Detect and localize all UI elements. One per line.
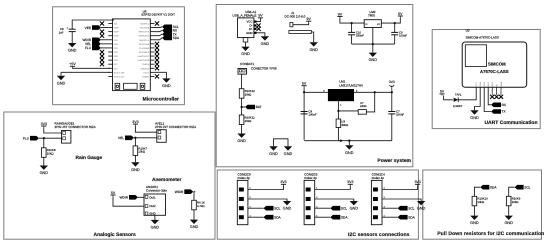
net flag SCL	[162, 25, 179, 30]
svg-text:GND: GND	[237, 139, 246, 143]
svg-text:Connector-3pin: Connector-3pin	[146, 189, 167, 193]
svg-text:VEL: VEL	[118, 136, 124, 140]
connector AVEL1 2PIN JST CONNECTOR RIZA	[155, 122, 197, 143]
svg-text:SCL: SCL	[274, 206, 280, 210]
svg-text:UART Communication: UART Communication	[484, 120, 537, 126]
capacitor C10	[348, 30, 364, 37]
section box: Pull Down resistors for I2C communication	[423, 170, 542, 239]
no-connect pin row 6 right	[155, 42, 159, 46]
svg-text:GND: GND	[417, 207, 426, 211]
svg-text:GND: GND	[40, 171, 49, 175]
svg-text:RXD2/UA0: RXD2/UA0	[139, 43, 150, 46]
ground left of IC	[57, 76, 66, 86]
ground UART	[470, 110, 479, 120]
wire to LM317 input	[304, 91, 328, 93]
svg-text:SCL/S25b: SCL/S25b	[140, 27, 150, 30]
svg-text:GND: GND	[479, 81, 482, 86]
IC pin stubs right	[150, 24, 154, 77]
svg-text:GPIO17/TX: GPIO17/TX	[138, 31, 149, 34]
wire CONI2C4 pin4 to SDA	[382, 216, 398, 218]
svg-text:D40/Rx: D40/Rx	[142, 75, 150, 78]
svg-text:S&L/SCLK: S&L/SCLK	[139, 39, 150, 42]
ground rain gauge	[40, 166, 49, 176]
resistor R10K9 10kΩ	[506, 196, 520, 206]
svg-text:RXD: RXD	[487, 81, 490, 86]
wire shield to ground	[245, 42, 247, 47]
svg-text:SDA: SDA	[173, 36, 180, 40]
net flag VEL	[118, 136, 134, 141]
net flag VEE	[85, 25, 101, 30]
connector ANIDIR1 Connector-3pin	[144, 185, 167, 216]
svg-text:4.7kΩ: 4.7kΩ	[197, 204, 205, 208]
svg-text:molex 4p: molex 4p	[304, 176, 317, 180]
net flag FLU	[23, 136, 39, 141]
svg-text:5V: 5V	[398, 12, 403, 16]
svg-text:DC-005 2.0-6.0: DC-005 2.0-6.0	[285, 14, 306, 18]
svg-text:TxD0/SCL: TxD0/SCL	[140, 23, 150, 26]
net flag BAT	[245, 105, 262, 110]
ground rail LM317	[304, 140, 392, 142]
resistor R4 1K 4.7kΩ	[192, 200, 205, 210]
wire CONI2C6 pin4 to SDA	[248, 216, 264, 218]
svg-text:GND: GND	[246, 31, 252, 35]
svg-text:3V3: 3V3	[280, 180, 286, 184]
wire down to ground	[60, 72, 62, 75]
no-connect pin row 9 right	[155, 54, 159, 58]
ground LM317	[345, 145, 354, 155]
resistor R10K11 10kΩ	[239, 115, 255, 125]
wire C10 to rail	[351, 35, 353, 44]
svg-text:SCL: SCL	[341, 206, 347, 210]
wire CONI2C6 pin2 to ground	[248, 199, 287, 201]
connector CONI2C5 molex 4p	[304, 173, 318, 225]
no-connect pin row 11 right	[155, 62, 159, 66]
ground CONI2C6	[283, 201, 292, 211]
svg-text:I2C sensors connections: I2C sensors connections	[348, 232, 410, 238]
module U5 SIMCOM A7670C-LASS	[462, 28, 527, 87]
net flag FLU	[85, 46, 101, 51]
resistor U3 390Ω	[336, 119, 348, 128]
IC pin name texts (right column)	[138, 23, 150, 79]
svg-text:10kΩ: 10kΩ	[245, 119, 252, 123]
net flag SCL (CONI2C6)	[264, 206, 281, 211]
section box: Microcontroller	[53, 7, 185, 105]
net flag SDA (CONI2C4)	[398, 215, 416, 220]
svg-text:USB_A_FEMALE: USB_A_FEMALE	[233, 14, 257, 18]
svg-text:10kΩ: 10kΩ	[138, 150, 145, 154]
svg-text:SDA: SDA	[274, 215, 281, 219]
junction	[374, 91, 376, 93]
svg-text:Rain Gauge: Rain Gauge	[76, 155, 103, 161]
section box: Analogic Sensors	[4, 112, 215, 239]
no-connect pin row 8 left	[100, 50, 104, 54]
wire FLU to pin 2	[39, 137, 62, 139]
svg-text:D4/Tx: D4/Tx	[144, 71, 151, 74]
ground wind vane	[151, 220, 160, 230]
svg-text:Power system: Power system	[377, 158, 411, 164]
resistor R10K8 10kΩ	[42, 148, 56, 158]
svg-text:GND: GND	[57, 81, 66, 85]
IC pin name texts (left column)	[114, 23, 125, 79]
svg-text:10kΩ: 10kΩ	[477, 200, 484, 204]
svg-text:GND/A: GND/A	[143, 63, 150, 66]
power flag 3V3 (CONI2C6)	[280, 180, 286, 186]
no-connect module pin PWR	[499, 95, 503, 99]
svg-text:WDIR: WDIR	[120, 196, 129, 200]
svg-text:GND: GND	[241, 52, 250, 56]
svg-text:CONECTOR YP06: CONECTOR YP06	[251, 66, 277, 70]
wire module GND pin down	[475, 87, 481, 110]
svg-text:GND: GND	[504, 221, 513, 225]
svg-text:VI: VI	[365, 23, 367, 26]
net flag SCL (pull down)	[515, 185, 531, 190]
net flag SCL (CONI2C5)	[330, 206, 347, 211]
no-connect pin row 3 left	[100, 30, 104, 34]
wire GND pin down	[154, 215, 156, 220]
junction	[43, 137, 45, 139]
svg-text:100nF: 100nF	[399, 34, 407, 38]
svg-text:Pull Down resistors for I2C co: Pull Down resistors for I2C communicatio…	[437, 231, 544, 237]
wire C8 top to 3V3 pin	[72, 20, 114, 29]
wire C8 to ground	[71, 32, 73, 43]
svg-text:BAT: BAT	[256, 105, 262, 109]
connector RAINGAUGE1 2PIN JST CONNECTOR RIZA	[55, 122, 97, 144]
power flag 9V (jack)	[306, 17, 311, 23]
svg-text:SIMCOM: SIMCOM	[488, 61, 506, 66]
net flag SDA (pull down)	[480, 185, 497, 190]
wire C9 to rail	[394, 35, 396, 44]
svg-text:GND: GND	[470, 221, 479, 225]
junction	[391, 91, 393, 93]
wire R10K7 to ground	[134, 155, 136, 162]
svg-text:CLK/SUB0: CLK/SUB0	[139, 47, 150, 50]
svg-text:SCA/T. MIS: SCA/T. MIS	[114, 71, 125, 74]
svg-text:SAMS/SDA: SAMS/SDA	[138, 35, 149, 38]
wire 7805 output to 5V	[381, 18, 400, 24]
svg-text:10kΩ: 10kΩ	[245, 93, 252, 97]
wire to C10	[351, 23, 353, 32]
svg-text:SDA: SDA	[490, 185, 497, 189]
svg-text:WDIR: WDIR	[175, 190, 184, 194]
wire R10K10 to ground	[473, 206, 475, 216]
svg-text:GND: GND	[162, 84, 171, 88]
svg-text:9V: 9V	[307, 17, 312, 21]
svg-text:10kΩ: 10kΩ	[47, 152, 54, 156]
connector J1 DC-005 2.0-6.0 barrel jack	[285, 11, 312, 33]
no-connect pin row 9 left	[100, 54, 104, 58]
wire +5V to pin	[73, 67, 110, 69]
svg-text:EN/P: EN/P	[114, 35, 119, 38]
resistor R10K12 10kΩ	[239, 89, 255, 99]
wire junction to BAT tag	[242, 106, 245, 108]
svg-text:390Ω: 390Ω	[341, 123, 348, 127]
wire CONI2C4 pin2 to ground	[382, 199, 421, 201]
connector CONI2C6 molex 4p	[237, 173, 251, 225]
svg-text:GND: GND	[350, 207, 359, 211]
wire 7805 gnd pin down	[372, 28, 374, 45]
resistor R10K7 10kΩ	[133, 146, 147, 156]
svg-text:Out1: Out1	[149, 195, 156, 199]
wire diode to module VCC pin	[458, 87, 476, 100]
wire 3V3 to pin 1	[135, 126, 156, 133]
no-connect pin row 11 left	[100, 62, 104, 66]
no-connect module pin DTR	[490, 95, 494, 99]
no-connect pin row 14 right	[155, 74, 159, 78]
wire RXD to RX tag	[488, 87, 491, 105]
resistor R10K10 10kΩ	[472, 196, 488, 206]
net flag RX	[491, 103, 507, 108]
power flag 5V (LM317 input)	[302, 82, 307, 88]
wire to C9	[394, 23, 396, 32]
svg-text:Out2: Out2	[149, 204, 156, 208]
power flag 3V3 (CONI2C5)	[347, 180, 353, 186]
power flag 5V (USB VCC)	[258, 14, 263, 20]
ground USB below	[241, 47, 250, 57]
svg-text:DTR: DTR	[491, 82, 494, 87]
ground (pair right)	[284, 146, 293, 156]
wire 5V to Out2	[113, 197, 144, 207]
wire LM317 adj down	[337, 101, 339, 119]
svg-text:PWR: PWR	[500, 81, 503, 86]
stem to ground	[372, 44, 374, 53]
net flag SCL (CONI2C4)	[398, 206, 415, 211]
svg-text:SIMCOM-A7670C-LASS: SIMCOM-A7670C-LASS	[466, 36, 499, 40]
wire USB GND pin	[257, 33, 265, 36]
svg-text:molex 4p: molex 4p	[372, 176, 385, 180]
power flag +5V (microcontroller)	[69, 62, 76, 68]
svg-text:GND: GND	[68, 49, 77, 53]
ground R4	[190, 220, 199, 230]
svg-text:molex 4p: molex 4p	[238, 176, 251, 180]
resistor U7 240Ω (horizontal)	[358, 102, 366, 114]
power flag 9V (7805 input)	[337, 12, 342, 18]
connector CONI2C4 molex 4p	[371, 173, 385, 225]
wire output to C7	[391, 92, 393, 111]
svg-text:TAV1: TAV1	[455, 93, 462, 96]
regulator U2 7805	[364, 10, 381, 28]
svg-text:3V3: 3V3	[389, 80, 395, 84]
no-connect USB D-	[257, 23, 261, 27]
wire R10K8 to ground	[43, 157, 45, 165]
svg-text:3V3: 3V3	[347, 180, 353, 184]
wire 390Ω to rail	[337, 128, 339, 141]
svg-text:3V3: 3V3	[414, 180, 420, 184]
section box: I2C sensors connections	[217, 170, 418, 239]
svg-text:GND: GND	[369, 58, 378, 62]
connector USB-A1 USB_A_FEMALE	[233, 10, 257, 38]
module pin labels (rotated)	[475, 81, 503, 86]
capacitor C8 (LM317 input)	[301, 109, 317, 116]
svg-text:USB/D22: USB/D22	[140, 67, 150, 70]
op-amp U8 ESP32 DEVKIT V1 DOIT (microcontroller IC body)	[113, 9, 176, 90]
ground 7805	[369, 53, 378, 63]
svg-text:GND: GND	[283, 207, 292, 211]
wire pin to left ground	[61, 71, 110, 73]
svg-text:5V: 5V	[302, 82, 307, 86]
svg-text:GND: GND	[151, 226, 160, 230]
wire CONI2C6 pin1 to 3V3	[248, 186, 284, 190]
svg-text:SCL: SCL	[524, 185, 530, 189]
svg-text:GND: GND	[470, 116, 479, 120]
section box: UART Communication	[432, 30, 540, 129]
wire 9V to 7805 input	[340, 18, 364, 23]
IC pin stubs left	[108, 24, 112, 77]
wire CONI2C5 pin2 to ground	[315, 199, 354, 201]
svg-text:100nF: 100nF	[308, 113, 316, 117]
ground CONI2C5	[350, 201, 359, 211]
svg-text:VO: VO	[377, 23, 380, 26]
wire TXD to TX tag	[484, 87, 491, 111]
svg-text:2PIN JST CONNECTOR RIZA: 2PIN JST CONNECTOR RIZA	[155, 125, 197, 129]
wire LM317 output rail	[354, 91, 392, 93]
power flag 5V (UART)	[439, 90, 444, 96]
junction	[340, 140, 342, 142]
wire USB VCC to 5V flag	[257, 20, 261, 22]
svg-text:GND: GND	[149, 212, 155, 216]
ground CONI2C4	[417, 201, 426, 211]
svg-text:VEE: VEE	[85, 26, 91, 30]
svg-text:7805: 7805	[368, 13, 375, 17]
svg-text:GND: GND	[131, 168, 140, 172]
net flag SDA (CONI2C6)	[264, 215, 282, 220]
wire WDIR to R4	[194, 192, 195, 201]
svg-text:5V: 5V	[111, 191, 116, 195]
ground USB right	[261, 36, 270, 46]
capacitor C7	[388, 109, 404, 116]
wire junction down	[43, 138, 45, 148]
junction	[303, 91, 305, 93]
wire left tags to pins	[101, 28, 108, 48]
svg-text:EN/P: EN/P	[114, 31, 119, 34]
svg-text:330nF: 330nF	[356, 34, 364, 38]
stem to ground	[348, 141, 350, 146]
junction	[348, 140, 350, 142]
net flag WDIR (pull down)	[175, 189, 194, 194]
junction	[394, 22, 396, 24]
svg-text:FLU: FLU	[23, 136, 30, 140]
wire R4 to ground	[193, 210, 195, 220]
section box: Power system	[216, 5, 413, 167]
svg-text:SCL: SCL	[408, 206, 414, 210]
ground R10K10	[470, 216, 479, 226]
net flag WDIR	[83, 37, 102, 42]
svg-text:VCC: VCC	[475, 81, 478, 86]
ground rail 7805	[352, 43, 395, 45]
USB shield pin	[243, 38, 248, 42]
svg-text:EN/P: EN/P	[114, 27, 119, 30]
power flag 3V3 (anemometer)	[132, 120, 138, 126]
capacitor C9	[391, 30, 407, 37]
wire CONI2C4 pin1 to 3V3	[382, 186, 418, 190]
svg-text:5V: 5V	[440, 90, 445, 94]
net flag WDIR (wind vane)	[120, 195, 139, 200]
wire R10K9 to ground	[508, 206, 510, 216]
wire 5V down to rail via C8	[303, 87, 305, 140]
wire adj to 240Ω	[338, 110, 358, 112]
svg-text:+5V: +5V	[69, 62, 76, 66]
svg-text:3V3: 3V3	[41, 122, 47, 126]
diode TAV1 1N4007	[453, 93, 463, 108]
no-connect module pin RI	[495, 95, 499, 99]
wire output to 240Ω feedback	[366, 92, 374, 112]
svg-text:9V: 9V	[338, 12, 343, 16]
wire 5V to diode	[444, 96, 453, 100]
ground below C8	[68, 43, 77, 53]
svg-text:SDA: SDA	[341, 215, 348, 219]
wire CONI2C5 pin3 to SCL	[315, 207, 331, 209]
no-connect pin row 10 left	[100, 58, 104, 62]
power flag 3V3 (LM317 output)	[389, 80, 395, 93]
svg-text:UARTD/R17: UARTD/R17	[138, 55, 150, 58]
svg-text:Microcontroller: Microcontroller	[143, 97, 179, 103]
svg-text:GND: GND	[269, 152, 278, 156]
junction	[372, 43, 374, 45]
net flag VEL	[85, 42, 101, 47]
wire CONI2C6 pin3 to SCL	[248, 207, 264, 209]
wire CONI2C5 pin1 to 3V3	[315, 186, 351, 190]
svg-text:Analogic Sensors: Analogic Sensors	[94, 232, 136, 238]
junction	[337, 110, 339, 112]
no-connect pin row 10 right	[155, 58, 159, 62]
svg-text:ESP32 DEVKIT V1 DOIT: ESP32 DEVKIT V1 DOIT	[142, 13, 176, 17]
svg-text:10kΩ: 10kΩ	[512, 200, 519, 204]
net flag SDA	[162, 36, 180, 41]
capacitor C8 (microcontroller decoupling)	[59, 26, 76, 34]
ground (pair left)	[269, 146, 278, 156]
power flag 5V (7805 output)	[398, 12, 403, 18]
svg-text:U5: U5	[466, 28, 470, 32]
wire CONI2C5 pin4 to SDA	[315, 216, 331, 218]
no-connect pin row 1 left	[100, 21, 104, 25]
power flag 3V3 (CONI2C4)	[414, 180, 420, 186]
wire C7 to rail	[391, 114, 393, 141]
ground right of IC	[162, 78, 171, 88]
no-connect pin row 7 right	[155, 46, 159, 50]
svg-text:1uF: 1uF	[59, 30, 64, 34]
svg-text:1N4007: 1N4007	[453, 105, 463, 108]
regulator LM1 LM317/LM317HV	[328, 80, 364, 102]
svg-text:5V: 5V	[258, 14, 263, 18]
wire junction down	[134, 138, 136, 146]
no-connect pin row 1 right	[155, 21, 159, 25]
no-connect pin row 4 left	[100, 34, 104, 38]
connector CONBAT1 CONECTOR YP06	[238, 62, 277, 74]
module stub pins with no-connects	[492, 87, 501, 95]
no-connect pin row 8 right	[155, 50, 159, 54]
net flag RX	[162, 28, 178, 33]
wire R10K11 to ground	[241, 125, 243, 134]
ground R10K9	[504, 216, 513, 226]
svg-text:FLU: FLU	[85, 46, 92, 50]
wire connector to R10K12	[241, 74, 243, 89]
net flag TX	[162, 32, 178, 37]
wire twin-ground bracket	[274, 139, 289, 147]
svg-text:GND: GND	[345, 151, 354, 155]
wire SDA to R10K10	[474, 187, 480, 196]
svg-text:GND: GND	[309, 48, 318, 52]
svg-text:UARTD/R18: UARTD/R18	[138, 59, 150, 62]
net flag TX	[491, 109, 507, 114]
junction	[240, 106, 242, 108]
wire CONI2C4 pin3 to SCL	[382, 207, 398, 209]
wire jack tip to 9V	[293, 23, 309, 25]
svg-text:Anemometer: Anemometer	[152, 177, 181, 183]
no-connect USB D+	[257, 27, 261, 31]
wire SCL to R10K9	[509, 187, 515, 196]
IC bottom USB footprint drawing	[115, 83, 145, 89]
wire VEL to pin 2	[134, 137, 157, 139]
wire WDIR to Out1	[138, 196, 144, 198]
